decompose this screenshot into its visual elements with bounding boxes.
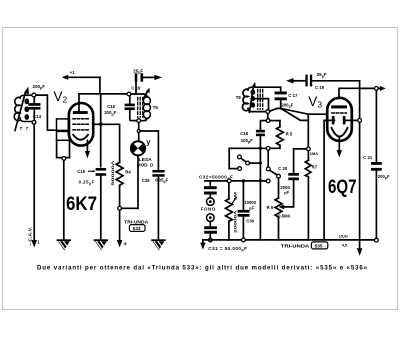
resistor R5 — [277, 121, 284, 149]
V3 diode plates — [332, 116, 335, 124]
svg-text:C 20: C 20 — [278, 166, 288, 171]
svg-text:200pF: 200pF — [378, 174, 390, 180]
ground 1 — [58, 240, 71, 250]
svg-text:533: 533 — [133, 226, 141, 232]
V3 cathode arc — [332, 128, 348, 137]
junction C18 on bus1 — [259, 179, 262, 182]
wire tee to lamp — [138, 133, 140, 142]
wire node2 to R5 — [270, 120, 280, 122]
capacitor C14 — [28, 97, 40, 120]
label 2000pF — [280, 185, 290, 195]
capacitor C32 fono top — [204, 181, 217, 198]
switch contact C — [238, 167, 242, 171]
capacitor 25pF input right — [286, 75, 360, 87]
capacitor C17 — [275, 87, 287, 108]
svg-text:C 17: C 17 — [288, 93, 298, 98]
svg-text:TRI-UNDA: TRI-UNDA — [281, 243, 310, 248]
ground 2 — [95, 240, 108, 250]
node bus1 left switch branch — [227, 179, 231, 183]
node T8 bottom — [266, 110, 270, 114]
wire node down to C21 — [375, 90, 377, 162]
svg-text:0.5MΛ: 0.5MΛ — [278, 214, 290, 219]
svg-text:Due varianti per ottenere dal: Due varianti per ottenere dal «Triunda 5… — [37, 265, 368, 272]
wire AVC line down — [33, 124, 35, 241]
svg-text:R4: R4 — [125, 170, 131, 175]
node bus2 right end — [375, 238, 379, 242]
svg-text:LESA: LESA — [139, 157, 152, 162]
V2 anode wire to T6 — [79, 93, 128, 95]
V3 right diode lead — [345, 119, 357, 121]
wire lamp bottom — [137, 155, 139, 208]
wire junction to grid-leak node — [281, 108, 309, 120]
V2 cathode arc — [73, 135, 88, 140]
resistor R4 — [103, 124, 123, 206]
svg-text:C 19: C 19 — [131, 85, 141, 90]
svg-text:1: 1 — [37, 240, 40, 245]
label 15,9v / 4,5 — [339, 234, 349, 248]
V2 anode bar — [73, 111, 88, 114]
node bottom of T7/C14 — [32, 120, 36, 124]
grid loop rectangle at V2 — [57, 119, 70, 130]
capacitor C29 0.05uF — [152, 170, 164, 239]
fono jack 2 — [207, 214, 215, 222]
T7 tuning arrow — [15, 87, 29, 131]
svg-text:200pF: 200pF — [33, 84, 46, 90]
label C16 200pF — [104, 104, 116, 116]
wire node to grid drop — [36, 95, 57, 130]
svg-text:200pF: 200pF — [104, 110, 116, 116]
bus1 wire — [205, 180, 266, 182]
svg-text:R 6: R 6 — [267, 205, 274, 210]
capacitor C16 — [125, 96, 137, 121]
svg-text:25pF: 25pF — [317, 72, 327, 78]
svg-text:pF: pF — [284, 190, 289, 195]
second loop rectangle at V2 — [57, 131, 70, 140]
wire frame to contact C — [229, 168, 238, 170]
wire node to lamp line — [122, 207, 139, 209]
svg-text:535: 535 — [315, 244, 323, 250]
svg-text:C18: C18 — [240, 131, 248, 136]
wire T7 top to node — [25, 94, 32, 96]
wire junction to V3 grid — [281, 108, 328, 114]
wiper tick on 20000 — [232, 197, 237, 204]
capacitor 25pF output left — [135, 73, 162, 94]
wire tee to 0.05 cap branch — [140, 131, 158, 170]
wire to ground 1 — [63, 160, 65, 239]
supply arrow +1 — [62, 70, 100, 80]
V3 left diode lead — [324, 120, 334, 239]
svg-text:C16: C16 — [107, 104, 115, 109]
label LESA MOD. D — [137, 157, 154, 168]
V2 cathode lead with arrow — [85, 141, 90, 159]
wire tee to output node — [360, 87, 375, 89]
node lamp tee — [137, 130, 140, 133]
svg-text:200pF: 200pF — [281, 102, 293, 108]
svg-text:T 7: T 7 — [20, 126, 30, 131]
svg-text:50000Λ: 50000Λ — [110, 160, 115, 186]
svg-text:C30: C30 — [246, 218, 254, 223]
junction C18 on switch wire — [259, 147, 262, 150]
node T6 top — [127, 92, 131, 96]
capacitor C20 — [279, 173, 299, 209]
svg-text:FONO: FONO — [201, 207, 216, 212]
svg-text:+1: +1 — [70, 70, 75, 75]
label TRI-UNDA 535 — [281, 242, 328, 250]
svg-text:10000: 10000 — [244, 200, 256, 205]
wire T6 node down to lamp tee — [138, 123, 140, 131]
node C30 on bus2 — [242, 238, 246, 242]
svg-text:pF: pF — [249, 205, 254, 210]
node top of T7/C14 — [32, 93, 36, 97]
wire node2 to C18 — [260, 121, 266, 130]
V3 cathode lead arrow — [337, 138, 342, 158]
wire anode tee — [339, 88, 360, 97]
node fono on bus2 — [208, 238, 212, 242]
svg-text:T6: T6 — [153, 105, 159, 110]
svg-text:C14: C14 — [33, 114, 42, 119]
label TRI-UNDA 533 — [124, 219, 148, 232]
bus2 wire — [203, 239, 375, 241]
switch contact D — [266, 167, 270, 171]
T8 tuning arrow — [249, 82, 256, 112]
capacitor C31 fono bottom — [204, 221, 217, 238]
wire T8 node2 tee — [267, 114, 269, 119]
svg-text:T8: T8 — [236, 95, 242, 100]
svg-text:– C.A.V.: – C.A.V. — [28, 227, 33, 246]
wire grid vertical to node — [307, 114, 309, 147]
switch blade D-E — [270, 170, 277, 175]
wire node to C20 — [294, 149, 307, 173]
switch blade A-B — [241, 158, 246, 162]
lamp LESA — [131, 141, 145, 155]
wire node to C17 junction — [270, 108, 281, 111]
V2 screen stub to supply line — [93, 123, 100, 125]
svg-text:R 5: R 5 — [286, 132, 293, 137]
svg-text:V2: V2 — [54, 89, 68, 105]
node cathode return — [62, 157, 66, 161]
svg-text:C15: C15 — [77, 169, 85, 174]
svg-text:1M: 1M — [233, 191, 238, 201]
transformer T8 — [242, 87, 280, 111]
svg-text:+: + — [123, 241, 127, 248]
svg-text:TRI-UNDA: TRI-UNDA — [124, 219, 148, 224]
svg-text:15,9v: 15,9v — [339, 234, 349, 239]
wire node down with + arrow — [117, 210, 128, 248]
svg-text:C31 = 50.000pF: C31 = 50.000pF — [208, 246, 247, 252]
switch contact B — [246, 161, 250, 165]
svg-text:6Q7: 6Q7 — [328, 176, 357, 198]
resistor R6 — [275, 198, 282, 240]
node R4 bottom — [118, 206, 122, 210]
node bus1 end — [266, 179, 270, 183]
capacitor C15 — [96, 168, 107, 239]
fono jack 1 — [207, 198, 215, 206]
wire E to R6 — [278, 178, 280, 198]
plate line bottom arrowhead — [357, 248, 363, 255]
wire AVC switch frame — [229, 148, 280, 168]
bus2 left end arrow — [200, 240, 205, 250]
label 10000pF — [244, 200, 256, 210]
junction B wire — [259, 162, 262, 165]
node2 T8 — [266, 119, 270, 123]
capacitor C18 — [256, 130, 265, 240]
main plate vertical line — [359, 81, 361, 249]
switch contact A — [238, 155, 242, 159]
node switch feed — [266, 147, 270, 151]
output arrow right — [378, 86, 386, 91]
svg-text:1MΛ: 1MΛ — [310, 151, 319, 156]
svg-text:4,5: 4,5 — [342, 243, 348, 248]
label C15 with arrow — [77, 169, 95, 174]
node T6 bottom — [137, 119, 141, 123]
junction dot screen — [99, 123, 103, 127]
svg-text:0.25μF: 0.25μF — [79, 179, 95, 185]
resistor R7 — [305, 151, 311, 240]
screen feed line down — [100, 94, 102, 167]
svg-text:6K7: 6K7 — [66, 193, 97, 215]
tube V2 envelope — [69, 103, 93, 146]
ground 3 — [152, 240, 165, 250]
V2 grid dashes — [73, 119, 90, 130]
V3 grid dashes — [332, 112, 347, 114]
svg-text:100pF: 100pF — [241, 138, 253, 144]
node output — [375, 87, 379, 91]
svg-text:C29: C29 — [142, 178, 150, 183]
svg-text:20000Λ: 20000Λ — [233, 210, 238, 233]
node diode right on plate line — [358, 119, 362, 123]
node grid leak — [307, 147, 311, 151]
V3 anode bar — [331, 105, 347, 108]
resistor 20000 on bus1 — [226, 183, 233, 240]
tube V3 envelope — [327, 98, 352, 141]
wire node down to contact D — [267, 150, 269, 167]
V2 anode lead — [78, 94, 80, 111]
capacitor C21 — [371, 162, 382, 238]
AVC arrowhead — [31, 240, 37, 248]
transformer T6 — [131, 94, 151, 121]
junction C30 branch — [242, 179, 245, 182]
svg-text:R7: R7 — [312, 165, 318, 170]
capacitor C30 — [238, 183, 250, 238]
wire loop down to cathode node — [57, 140, 70, 157]
svg-text:V3: V3 — [308, 94, 322, 110]
transformer T7 — [14, 95, 32, 121]
svg-text:C 19: C 19 — [315, 85, 325, 90]
T6 tuning arrow — [144, 88, 150, 98]
svg-text:MOD. D: MOD. D — [137, 163, 154, 168]
svg-text:0.05μF: 0.05μF — [155, 177, 168, 183]
wire B to C18 line — [250, 162, 261, 164]
svg-text:y: y — [146, 137, 151, 146]
supply vertical line — [99, 77, 101, 94]
switch contact E — [277, 174, 281, 178]
svg-text:C 21: C 21 — [363, 155, 373, 160]
